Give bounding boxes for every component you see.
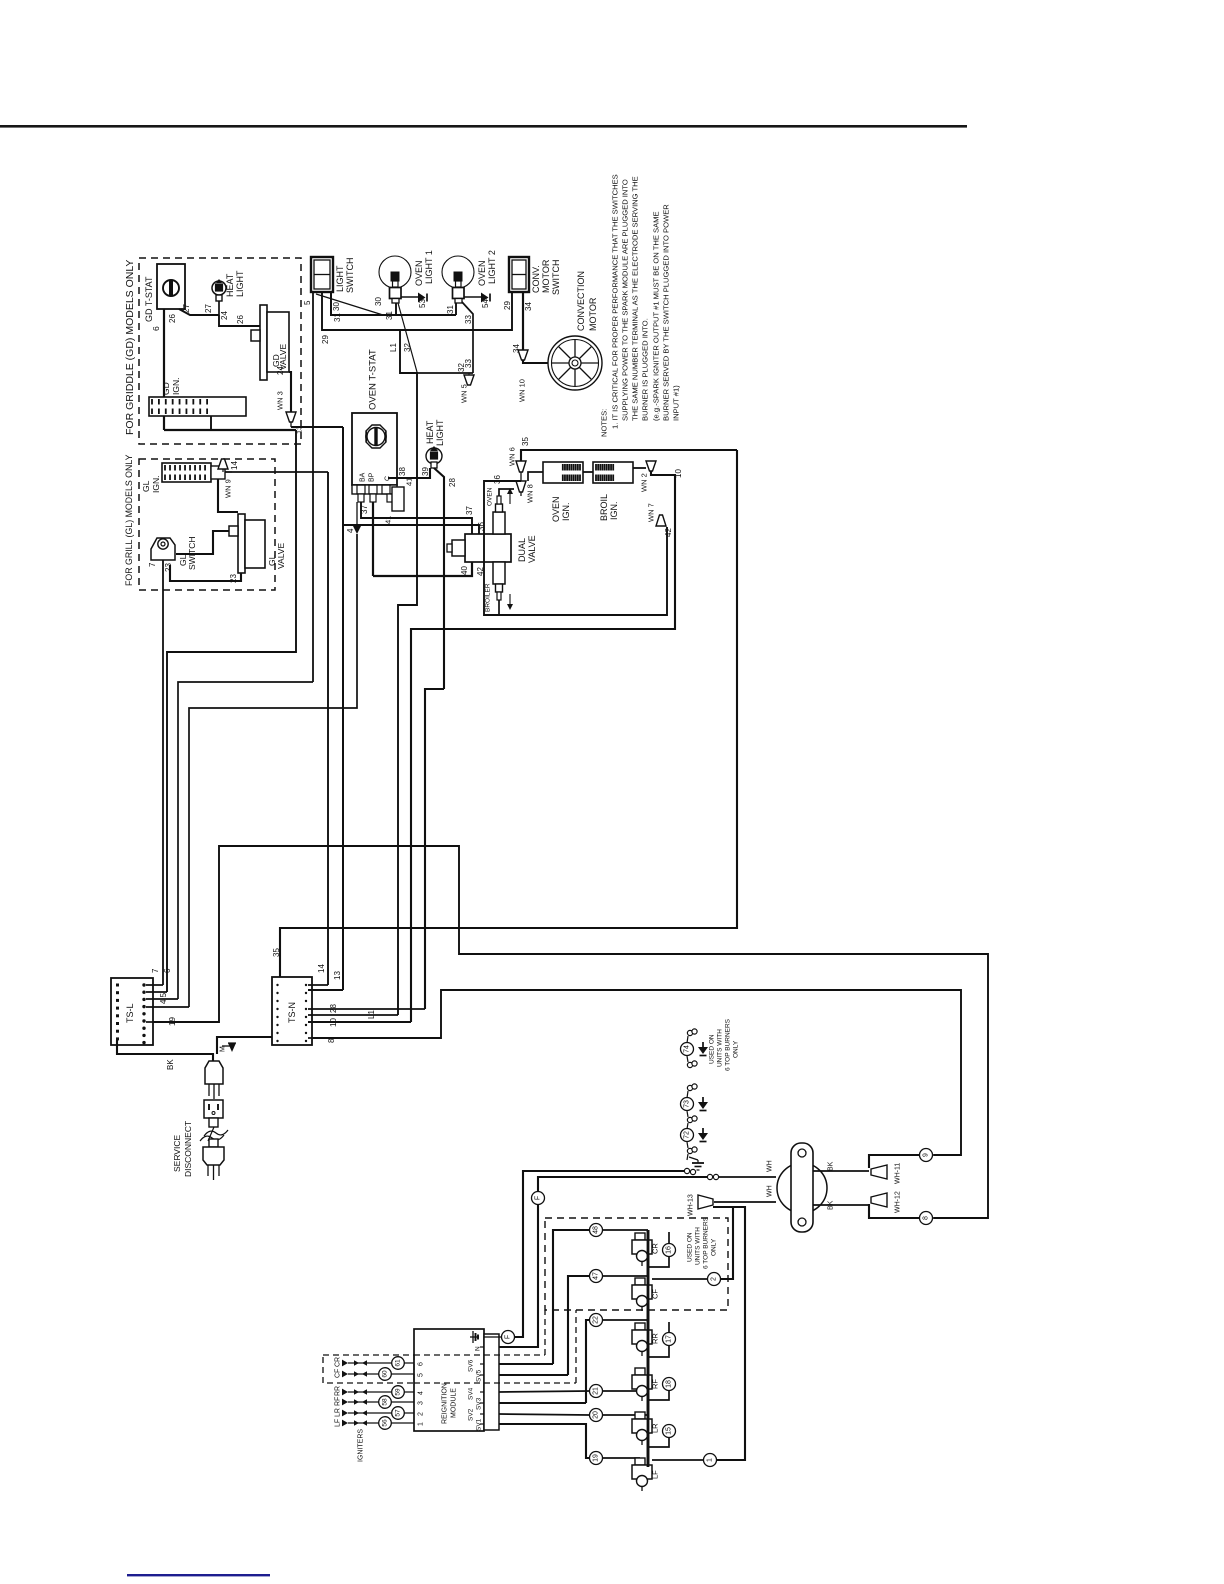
wire SV3 feed <box>499 1402 586 1404</box>
wire BK lower <box>813 1204 869 1206</box>
wire lamp1 stub <box>395 302 397 315</box>
igniter LR <box>632 1412 660 1445</box>
connector 20 <box>590 1409 603 1422</box>
pin 5 label <box>303 300 312 305</box>
wire 22 right <box>603 1319 648 1321</box>
svg-text:31: 31 <box>446 305 455 314</box>
svg-text:BROIL: BROIL <box>599 494 609 521</box>
svg-text:WH-11: WH-11 <box>895 1163 902 1184</box>
svg-text:47: 47 <box>593 1272 600 1280</box>
wire 9 to corner <box>933 1154 961 1156</box>
wire 8 long run <box>312 990 961 1155</box>
svg-text:WH: WH <box>767 1185 774 1197</box>
label WN 5 <box>460 384 469 403</box>
svg-text:73: 73 <box>684 1100 691 1108</box>
svg-text:32: 32 <box>403 343 412 352</box>
wire 47 left <box>568 1276 589 1375</box>
label WN 8 <box>526 484 535 503</box>
cone connector WN5 <box>464 373 474 385</box>
switch 73 top terminal <box>687 1084 697 1098</box>
wire 8 to corner <box>933 1217 988 1219</box>
svg-text:29: 29 <box>503 301 512 310</box>
igniter CF <box>632 1278 660 1311</box>
label FOR GRIDDLE (GD) MODELS ONLY <box>124 260 136 435</box>
igniter CR <box>632 1233 660 1266</box>
label BROILER + arrow <box>484 583 513 612</box>
wire cone WH-11 up to 9 <box>869 1155 919 1168</box>
oven thermostat OVEN T-STAT <box>352 413 397 485</box>
svg-text:REIGNITION: REIGNITION <box>442 1383 449 1424</box>
connector 16 <box>663 1244 676 1257</box>
svg-text:HEAT: HEAT <box>225 273 235 297</box>
svg-text:SV1: SV1 <box>475 1418 482 1431</box>
svg-text:6: 6 <box>418 1362 425 1366</box>
svg-text:3: 3 <box>418 1401 425 1405</box>
wire inner ignition loop <box>484 481 667 615</box>
wire 17 loop <box>648 1322 669 1357</box>
svg-text:28: 28 <box>329 1004 338 1013</box>
wire module N feed <box>499 1177 707 1347</box>
module input LF / 56 <box>335 1417 425 1430</box>
svg-text:17: 17 <box>666 1335 673 1343</box>
svg-text:18: 18 <box>666 1380 673 1388</box>
svg-text:RF: RF <box>335 1397 342 1406</box>
wire 16 loop <box>648 1232 669 1267</box>
label L1 (TS-N) <box>367 1010 376 1019</box>
GD igniter coil GD IGN. <box>149 397 246 416</box>
electrode bus <box>647 1230 650 1467</box>
wire 28 heat light down <box>434 468 444 689</box>
wire L1 into TS-N <box>308 1014 398 1016</box>
oven light 2 bulb <box>442 256 474 303</box>
pin 27 labels <box>182 304 213 313</box>
wire 35 long run <box>280 450 737 983</box>
svg-text:F: F <box>535 1196 542 1200</box>
svg-text:CF: CF <box>651 1289 660 1299</box>
svg-text:74: 74 <box>684 1045 691 1053</box>
svg-text:WN 6: WN 6 <box>508 447 517 466</box>
wire BK upper <box>813 1170 869 1172</box>
svg-text:IGNITERS: IGNITERS <box>358 1429 365 1462</box>
svg-text:LIGHT 1: LIGHT 1 <box>424 250 434 284</box>
label 31 (lamp2) <box>446 305 455 314</box>
svg-text:WH-13: WH-13 <box>688 1194 695 1216</box>
wire cone WH-12 down to 8 <box>869 1204 919 1218</box>
svg-text:1: 1 <box>707 1458 714 1462</box>
svg-text:WH: WH <box>767 1160 774 1172</box>
wire C to heat light <box>388 468 430 478</box>
svg-text:SV6: SV6 <box>467 1359 474 1372</box>
electrode bus overlay <box>647 1230 650 1467</box>
oven light 1 bulb <box>379 256 411 303</box>
igniter RR <box>632 1323 660 1356</box>
wire WH-13 branch to 2 <box>721 1207 733 1279</box>
svg-text:40: 40 <box>460 566 469 575</box>
svg-text:16: 16 <box>666 1246 673 1254</box>
svg-text:30: 30 <box>374 297 383 306</box>
connector F <box>499 1331 515 1344</box>
svg-text:F: F <box>505 1335 512 1339</box>
cone WH-12 <box>871 1193 887 1207</box>
cone connector WN6 <box>516 461 526 481</box>
label 31 (switch) <box>333 313 342 322</box>
svg-text:4: 4 <box>346 528 355 533</box>
svg-text:20: 20 <box>593 1411 600 1419</box>
wire lamp2 stub <box>455 302 457 315</box>
svg-text:14: 14 <box>317 964 326 973</box>
svg-text:BK: BK <box>828 1161 835 1171</box>
wire 6 across box bottom <box>164 429 296 431</box>
svg-text:OVEN: OVEN <box>477 260 487 286</box>
GD models dashed enclosure <box>139 258 301 444</box>
svg-text:WN 10: WN 10 <box>518 379 527 402</box>
svg-text:58: 58 <box>382 1398 389 1406</box>
svg-text:FOR GRIDDLE (GD) MODELS ONLY: FOR GRIDDLE (GD) MODELS ONLY <box>124 260 136 435</box>
wire plug to TS-N <box>217 1037 272 1054</box>
module pin SV5 <box>475 1369 484 1382</box>
switch 74 ground <box>698 1042 708 1056</box>
svg-text:24: 24 <box>220 311 229 320</box>
connector 47 <box>590 1270 603 1283</box>
module pin SV1 <box>475 1418 484 1431</box>
svg-text:LIGHT 2: LIGHT 2 <box>487 250 497 284</box>
svg-text:L1: L1 <box>367 1010 376 1019</box>
GD thermostat GD T-STAT <box>157 264 185 309</box>
label 14 (TS-N) <box>317 964 326 973</box>
svg-text:OVEN T-STAT: OVEN T-STAT <box>367 349 378 410</box>
wire between coils <box>583 471 593 473</box>
label WN 10 <box>518 379 527 402</box>
svg-text:39: 39 <box>421 467 430 476</box>
wire 20 right <box>603 1414 648 1416</box>
broil ignitor coil BROIL IGN. <box>593 462 633 483</box>
chain terminals to wires <box>684 1168 718 1179</box>
light switch <box>311 257 333 292</box>
connector 48 <box>590 1224 603 1237</box>
cone connector 14 / WN9 <box>218 459 228 472</box>
wire 20 left <box>499 1414 589 1415</box>
dashed link bottom <box>414 1310 576 1383</box>
module pin SV2 <box>467 1408 484 1421</box>
wire 8 into TS-N <box>308 1037 312 1039</box>
pin 7 label <box>148 562 157 567</box>
reignition module box <box>414 1329 484 1431</box>
svg-text:GL: GL <box>141 480 151 492</box>
svg-text:USED ON: USED ON <box>686 1232 693 1262</box>
svg-text:SV4: SV4 <box>467 1387 474 1400</box>
svg-text:6: 6 <box>151 326 161 331</box>
svg-text:OVEN: OVEN <box>414 260 424 286</box>
label 33 lower <box>464 359 473 368</box>
svg-text:VALVE: VALVE <box>527 535 537 563</box>
label WN 9 <box>224 479 233 498</box>
module pin SV4 <box>467 1387 484 1400</box>
wire 47 right <box>603 1275 648 1277</box>
wire 13 bus down to TS-N <box>342 427 344 990</box>
service ground arrow <box>220 1043 236 1052</box>
oven heat light <box>426 446 442 468</box>
svg-text:CONVECTION: CONVECTION <box>576 271 586 331</box>
label OVEN T-STAT <box>367 349 378 410</box>
label BA BP C <box>360 472 392 482</box>
wire WH-13 from transformer <box>714 1201 776 1203</box>
switch 73 <box>681 1098 694 1111</box>
svg-text:27: 27 <box>204 304 213 313</box>
svg-text:BK: BK <box>166 1059 175 1070</box>
svg-text:SWITCH: SWITCH <box>345 258 355 294</box>
svg-text:CF: CF <box>335 1369 342 1378</box>
label OVEN LIGHT 1 <box>414 250 434 286</box>
svg-text:53: 53 <box>418 299 427 308</box>
label BK (lower) <box>828 1200 835 1210</box>
wire 14 into TS-N <box>308 984 328 986</box>
switch 72 bottom terminal <box>687 1142 697 1160</box>
svg-text:UNITS WITH: UNITS WITH <box>716 1029 723 1067</box>
terminal strip TS-L <box>111 978 153 1045</box>
label IGNITERS <box>358 1429 365 1462</box>
wire 4 stub with arrow <box>346 502 361 534</box>
connector 9 <box>920 1149 933 1162</box>
svg-text:GD: GD <box>161 382 171 395</box>
svg-text:BROILER: BROILER <box>484 583 491 612</box>
wire 5 into TS-L <box>146 1006 189 1008</box>
label CONV. MOTOR SWITCH <box>531 259 561 295</box>
wire L1 long run <box>398 330 417 1015</box>
switch 73 bottom terminal <box>687 1111 697 1123</box>
svg-text:BURNER SERVED BY THE SWITCH PL: BURNER SERVED BY THE SWITCH PLUGGED INTO… <box>662 204 671 421</box>
wire SV6 feed <box>499 1363 553 1365</box>
cone connector WN10 <box>518 350 528 360</box>
switch 72 top terminal <box>687 1123 688 1129</box>
svg-text:6: 6 <box>163 968 172 973</box>
wire 4 long run <box>178 682 313 999</box>
label GD VALVE <box>271 344 288 370</box>
pin 24 label lower <box>276 366 285 375</box>
GL igniter coil GL IGN. <box>162 463 225 482</box>
label 40 (valve) <box>460 566 469 575</box>
svg-text:21: 21 <box>593 1387 600 1395</box>
pin 36 label (valve) <box>477 522 486 531</box>
svg-text:IGN.: IGN. <box>171 378 181 395</box>
label 39 <box>421 467 430 476</box>
pin 23 labels <box>164 563 238 583</box>
svg-text:LF: LF <box>651 1470 660 1479</box>
wire WH-13 branch to 1 <box>713 1207 745 1460</box>
svg-text:37: 37 <box>465 506 474 515</box>
module input LR / 57 <box>335 1407 425 1420</box>
svg-text:6 TOP BURNERS: 6 TOP BURNERS <box>702 1216 709 1269</box>
svg-text:10: 10 <box>329 1018 338 1027</box>
svg-text:TS-L: TS-L <box>125 1003 135 1023</box>
oven light 2 ground <box>464 293 490 303</box>
wire 28 into TS-N <box>308 1008 425 1010</box>
label 7 6 (TS-L) <box>151 968 172 973</box>
wire WN8 to oven ign <box>521 472 543 496</box>
svg-text:BA: BA <box>360 472 367 482</box>
svg-text:54: 54 <box>481 299 490 308</box>
header rule <box>0 125 967 128</box>
svg-text:WH-12: WH-12 <box>895 1191 902 1213</box>
label 38 <box>398 467 407 476</box>
receptacle neck <box>209 1118 218 1127</box>
svg-text:5: 5 <box>418 1373 425 1377</box>
svg-text:15: 15 <box>666 1427 673 1435</box>
label BK <box>166 1059 175 1070</box>
svg-text:DISCONNECT: DISCONNECT <box>183 1121 193 1177</box>
svg-text:M: M <box>220 1046 227 1052</box>
igniter LF <box>632 1458 660 1491</box>
svg-text:WN 8: WN 8 <box>526 484 535 503</box>
switch 74 <box>681 1043 694 1056</box>
label 42 (valve) <box>476 567 485 576</box>
wire 1 left <box>652 1459 703 1461</box>
svg-text:19: 19 <box>168 1017 177 1026</box>
label L1 <box>389 343 398 352</box>
svg-text:SV5: SV5 <box>475 1369 482 1382</box>
label WN 6 <box>508 447 517 466</box>
svg-text:SERVICE: SERVICE <box>172 1135 182 1172</box>
svg-text:7: 7 <box>148 562 157 567</box>
svg-text:41: 41 <box>384 516 393 524</box>
label 42 (loop) <box>664 528 673 537</box>
svg-text:WN 7: WN 7 <box>647 503 656 522</box>
label BK (upper) <box>828 1161 835 1171</box>
svg-text:19: 19 <box>593 1454 600 1462</box>
svg-text:22: 22 <box>593 1316 600 1324</box>
wire junction lamp area <box>417 372 473 374</box>
label 10 (TS-N) <box>329 1018 338 1027</box>
label GL VALVE <box>267 543 286 569</box>
wire 32 diagonal lamp1 <box>398 303 417 372</box>
cone connector 10 <box>646 461 656 471</box>
svg-text:61: 61 <box>395 1359 402 1367</box>
wire 6 into TS-L <box>146 991 167 993</box>
wire 18 loop <box>648 1391 669 1400</box>
svg-text:26: 26 <box>236 315 245 324</box>
oven light 1 ground <box>401 293 427 303</box>
pin 37 label (valve) <box>465 506 474 515</box>
label SERVICE DISCONNECT <box>172 1121 193 1177</box>
wire 19 into TS-L <box>146 1021 153 1023</box>
wire 35 from valve top <box>499 489 514 496</box>
label HEAT LIGHT (GD) <box>225 270 245 297</box>
connector 19b <box>590 1452 603 1465</box>
svg-text:LIGHT: LIGHT <box>435 419 445 446</box>
svg-text:VALVE: VALVE <box>276 543 286 569</box>
svg-text:WN 2: WN 2 <box>640 473 649 492</box>
dashed box 6-top-burner electrodes <box>545 1218 728 1310</box>
wire cone to fan <box>523 360 548 363</box>
connector 8 <box>920 1212 933 1225</box>
label 13 <box>295 426 304 434</box>
label WN 2 <box>640 473 649 492</box>
label 54 <box>481 299 490 308</box>
svg-text:35: 35 <box>521 437 530 446</box>
label DUAL VALVE <box>517 535 537 563</box>
GL valve GL VALVE <box>229 514 265 573</box>
label OVEN + arrow <box>486 487 513 506</box>
label BROIL IGN. <box>599 494 619 521</box>
label WH-13 <box>688 1194 695 1216</box>
wire 35 up and right <box>521 450 737 461</box>
svg-text:WN 3: WN 3 <box>276 391 285 410</box>
wire 48 left <box>553 1230 589 1364</box>
svg-text:30: 30 <box>332 302 341 311</box>
svg-text:37: 37 <box>360 505 369 514</box>
label TS-L <box>125 1003 135 1023</box>
svg-text:23: 23 <box>164 563 173 572</box>
pin 29 label <box>503 301 512 310</box>
cone connector WN8 <box>516 481 526 492</box>
label 13 (TS-N) <box>333 971 342 980</box>
svg-text:VALVE: VALVE <box>278 344 288 370</box>
pin 30 label <box>332 302 341 311</box>
connector 18 <box>663 1378 676 1391</box>
svg-text:5: 5 <box>303 300 312 305</box>
wire t-stat to heat light <box>179 301 219 315</box>
wire GL ign to cone 14 <box>225 471 232 473</box>
svg-text:8: 8 <box>923 1216 930 1220</box>
cone WH-11 <box>871 1165 887 1179</box>
igniter RF <box>632 1368 660 1401</box>
svg-text:1: 1 <box>418 1422 425 1426</box>
service receptacle <box>204 1100 223 1118</box>
svg-text:48: 48 <box>593 1226 600 1234</box>
wire 5 light switch down <box>312 292 314 682</box>
svg-text:SV2: SV2 <box>467 1408 474 1421</box>
label WH-12 <box>895 1191 902 1213</box>
wire 2 left <box>652 1278 707 1280</box>
svg-text:IGN.: IGN. <box>609 501 619 520</box>
wire GL ign down to valve <box>218 479 238 512</box>
svg-text:CR: CR <box>651 1243 660 1254</box>
svg-text:7: 7 <box>151 968 160 973</box>
svg-text:WN 5: WN 5 <box>460 384 469 403</box>
service plug upper <box>205 1061 223 1099</box>
wire heat light to GD valve <box>219 315 262 326</box>
label 31 (lamp1) <box>385 311 394 320</box>
svg-text:60: 60 <box>382 1370 389 1378</box>
svg-text:GD T-STAT: GD T-STAT <box>144 276 154 322</box>
wire 34 to fan <box>522 292 524 350</box>
svg-text:LIGHT: LIGHT <box>235 270 245 297</box>
svg-text:31: 31 <box>333 313 342 322</box>
module ground symbol <box>470 1331 479 1343</box>
label TS-N <box>287 1002 297 1023</box>
label WN 7 <box>647 503 656 522</box>
svg-text:BURNER IS PLUGGED INTO.: BURNER IS PLUGGED INTO. <box>641 318 650 421</box>
chain earth ground <box>689 1157 704 1170</box>
label 32 (cone) <box>457 363 466 372</box>
notes text block <box>600 174 681 437</box>
svg-text:WN 9: WN 9 <box>224 479 233 498</box>
label 36 (junction) <box>493 475 502 484</box>
connector 22 <box>590 1314 603 1327</box>
wire 29 bus <box>322 292 512 330</box>
cone WH-13 <box>698 1195 713 1209</box>
wire 33 lamp2 down <box>462 302 473 373</box>
label 8 <box>327 1038 336 1043</box>
svg-text:56: 56 <box>382 1419 389 1427</box>
wire 30 bus under lamps <box>331 292 456 315</box>
svg-text:42: 42 <box>664 528 673 537</box>
label WN 3 <box>276 391 285 410</box>
cord break symbol <box>200 1127 228 1141</box>
label 28 (TS-N) <box>329 1004 338 1013</box>
svg-text:TS-N: TS-N <box>287 1002 297 1023</box>
switch 74 bottom terminal <box>687 1056 697 1068</box>
label REIGNITION MODULE <box>442 1383 458 1424</box>
